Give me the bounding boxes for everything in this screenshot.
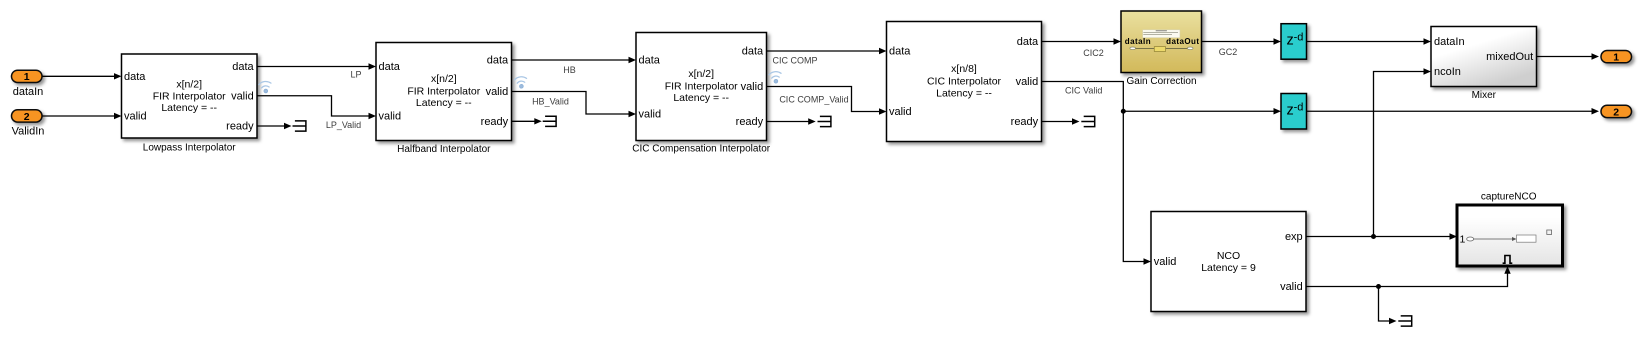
terminator T4	[1081, 116, 1094, 126]
block Halfband Interpolator	[376, 43, 512, 155]
svg-text:valid: valid	[741, 81, 764, 93]
svg-text:LP_Valid: LP_Valid	[326, 120, 361, 130]
svg-text:GC2: GC2	[1219, 47, 1238, 57]
wire delay2 out to Out2	[1307, 108, 1600, 114]
terminator T1	[293, 121, 306, 131]
wire HB	[512, 57, 637, 75]
svg-text:1: 1	[1613, 52, 1619, 64]
svg-text:valid: valid	[1154, 256, 1177, 268]
svg-text:x[n/2]: x[n/2]	[176, 79, 202, 91]
wire ready4 to terminator	[1042, 118, 1080, 124]
wire ready3 to terminator	[767, 118, 816, 124]
wifi badge 1	[259, 81, 273, 94]
svg-text:ValidIn: ValidIn	[12, 126, 45, 138]
svg-text:Latency = --: Latency = --	[161, 102, 217, 114]
svg-text:Latency = 9: Latency = 9	[1201, 262, 1256, 274]
svg-text:dataIn: dataIn	[1434, 36, 1465, 48]
wire NCO exp to Mixer ncoIn (vertical branch)	[1371, 68, 1431, 239]
inport 1	[12, 70, 44, 98]
svg-text:exp: exp	[1285, 231, 1303, 243]
wire CIC Valid	[1042, 82, 1152, 265]
inport 2	[12, 110, 45, 138]
terminator T5	[1398, 316, 1411, 326]
wire from In1 to Lowpass data	[42, 73, 122, 79]
junction on NCO valid down to terminator	[1376, 284, 1397, 324]
svg-text:valid: valid	[1016, 76, 1039, 88]
svg-text:1: 1	[24, 71, 30, 83]
wifi badge 2	[514, 76, 528, 89]
block CIC Compensation Interpolator	[632, 33, 771, 155]
svg-text:CIC Interpolator: CIC Interpolator	[927, 75, 1002, 87]
svg-text:valid: valid	[889, 106, 912, 118]
svg-text:ready: ready	[226, 121, 254, 133]
svg-text:CIC Valid: CIC Valid	[1065, 86, 1102, 96]
block NCO	[1151, 212, 1306, 312]
svg-text:ready: ready	[481, 116, 509, 128]
svg-text:NCO: NCO	[1217, 250, 1240, 262]
svg-text:FIR Interpolator: FIR Interpolator	[665, 80, 738, 92]
svg-text:HB: HB	[563, 65, 576, 75]
terminator T3	[818, 116, 831, 126]
svg-text:CIC Compensation Interpolator: CIC Compensation Interpolator	[632, 144, 771, 155]
svg-text:1: 1	[1460, 233, 1466, 245]
block Mixer	[1431, 27, 1537, 102]
block captureNCO	[1457, 192, 1563, 267]
svg-text:valid: valid	[639, 109, 662, 121]
wire LP_Valid	[257, 96, 376, 130]
svg-text:CIC2: CIC2	[1083, 48, 1104, 58]
wire from In2 to Lowpass valid	[42, 113, 122, 119]
svg-text:HB_Valid: HB_Valid	[532, 97, 569, 107]
svg-text:LP: LP	[350, 70, 361, 80]
svg-text:2: 2	[1613, 106, 1619, 118]
svg-text:ready: ready	[736, 116, 764, 128]
svg-text:Halfband Interpolator: Halfband Interpolator	[397, 144, 491, 155]
block Lowpass Interpolator	[122, 54, 258, 154]
delay block z-d 2	[1281, 94, 1307, 130]
svg-text:data: data	[639, 55, 661, 67]
delay block z-d 1	[1281, 24, 1307, 60]
junction on CIC Valid to delay2	[1121, 108, 1281, 114]
svg-text:valid: valid	[1280, 281, 1303, 293]
svg-text:data: data	[232, 61, 254, 73]
terminator T2	[543, 116, 556, 126]
svg-text:x[n/2]: x[n/2]	[431, 73, 457, 85]
block CIC Interpolator	[887, 22, 1042, 142]
svg-text:CIC COMP_Valid: CIC COMP_Valid	[779, 95, 848, 105]
outport 1	[1601, 51, 1632, 64]
wire NCO exp to captureNCO	[1306, 233, 1457, 239]
svg-text:Mixer: Mixer	[1472, 90, 1497, 101]
svg-text:FIR Interpolator: FIR Interpolator	[153, 90, 226, 102]
svg-text:valid: valid	[124, 111, 147, 123]
wire HB_Valid	[512, 92, 637, 118]
svg-text:data: data	[124, 71, 146, 83]
svg-text:Latency = --: Latency = --	[416, 97, 472, 109]
svg-text:data: data	[889, 46, 911, 58]
wire CIC COMP_Valid	[767, 87, 887, 115]
svg-text:mixedOut: mixedOut	[1486, 51, 1533, 63]
svg-text:FIR Interpolator: FIR Interpolator	[407, 85, 480, 97]
svg-text:data: data	[487, 55, 509, 67]
wire LP	[257, 63, 376, 79]
svg-text:Latency = --: Latency = --	[673, 92, 729, 104]
svg-text:Latency = --: Latency = --	[936, 88, 992, 100]
wire ready2 to terminator	[512, 118, 542, 124]
svg-text:dataOut: dataOut	[1166, 37, 1199, 46]
svg-text:x[n/2]: x[n/2]	[688, 68, 714, 80]
wire CIC COMP	[767, 48, 887, 66]
wire CIC2	[1042, 38, 1122, 58]
block Gain Correction	[1121, 11, 1202, 87]
wire ready1 to terminator	[257, 123, 292, 129]
svg-text:-d: -d	[1294, 101, 1304, 113]
svg-text:ncoIn: ncoIn	[1434, 66, 1461, 78]
wire GC2	[1202, 38, 1282, 57]
svg-text:x[n/8]: x[n/8]	[951, 63, 977, 75]
svg-text:data: data	[379, 61, 401, 73]
outport 2	[1601, 105, 1632, 118]
svg-text:Gain Correction: Gain Correction	[1126, 76, 1196, 87]
svg-text:dataIn: dataIn	[1125, 37, 1151, 46]
wifi badge 3	[769, 71, 783, 84]
svg-text:Lowpass Interpolator: Lowpass Interpolator	[143, 143, 237, 154]
wire mixedOut to Out1	[1537, 53, 1600, 59]
svg-text:data: data	[1017, 36, 1039, 48]
svg-text:-d: -d	[1294, 31, 1304, 43]
svg-text:2: 2	[24, 111, 30, 123]
wire delay1 out to Mixer dataIn	[1307, 38, 1432, 44]
svg-text:data: data	[742, 46, 764, 58]
svg-text:ready: ready	[1011, 116, 1039, 128]
svg-text:dataIn: dataIn	[13, 86, 44, 98]
svg-text:valid: valid	[486, 86, 509, 98]
svg-text:valid: valid	[231, 90, 254, 102]
svg-text:CIC COMP: CIC COMP	[773, 56, 818, 66]
wire NCO valid to captureNCO trigger	[1306, 266, 1511, 286]
svg-text:valid: valid	[379, 111, 402, 123]
svg-text:captureNCO: captureNCO	[1481, 192, 1537, 203]
